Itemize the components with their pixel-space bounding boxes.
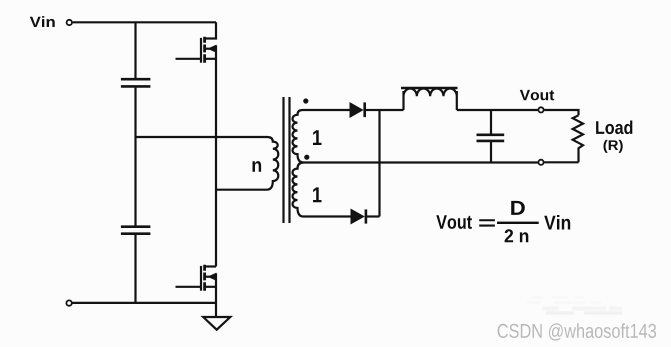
terminal Vout (open circle) — [538, 107, 543, 112]
node Vout label — [520, 90, 554, 100]
resistor Load R — [573, 115, 583, 162]
wire rectifier junction vertical — [378, 110, 380, 217]
capacitor C3 plates — [477, 135, 505, 141]
wire bottom rail — [73, 302, 217, 304]
transistor Q1 (upper MOSFET) — [176, 22, 217, 62]
capacitor C2 (lower bus capacitor) — [121, 227, 150, 234]
wire Vout terminal to load top — [544, 110, 578, 115]
wire bottom terminal to load bottom — [544, 161, 578, 163]
wire primary bottom lead — [216, 189, 267, 191]
wire middle rail (capacitor midpoint to primary top lead) — [136, 136, 268, 138]
label (R) — [604, 140, 623, 153]
wire bottom output rail (centre tap to bottom terminal) — [304, 161, 538, 163]
terminal bottom output (open circle) — [538, 160, 543, 165]
node Vin label — [30, 16, 55, 27]
polarity dot upper winding — [303, 98, 308, 103]
capacitor C1 (upper bus capacitor) — [121, 79, 150, 86]
watermark ghost marks — [527, 296, 623, 315]
label 1 (lower secondary turns) — [313, 187, 322, 202]
label n (primary turns) — [253, 161, 262, 172]
label Load — [596, 121, 632, 135]
wire inductor to Vout terminal — [457, 109, 538, 111]
wire Q2 source to ground — [215, 273, 217, 317]
wire left branch vertical middle segment — [134, 88, 136, 226]
wire left branch vertical lower segment — [134, 235, 136, 303]
diode D2 (lower rectifier) — [351, 209, 380, 223]
transformer T1 primary winding — [267, 137, 279, 190]
transformer T1 secondary upper winding — [293, 110, 350, 163]
transformer T1 core — [284, 97, 290, 223]
wire left branch vertical upper segment — [134, 22, 136, 78]
wire top output rail to inductor — [380, 109, 404, 111]
inductor L1 — [401, 88, 458, 110]
label 1 (upper secondary turns) — [313, 130, 322, 145]
watermark CSDN @whaosoft143 — [498, 323, 656, 340]
polarity dot lower winding — [304, 155, 309, 160]
capacitor C3 output filter upper lead — [490, 110, 492, 134]
transistor Q2 (lower MOSFET) — [176, 265, 217, 291]
wire switch midpoint vertical (Q1 source to Q2 drain) — [215, 45, 217, 266]
diode D1 (upper rectifier) — [350, 102, 380, 117]
terminal Vin (open circle) — [67, 20, 72, 25]
wire top rail Vin terminal to Q1 drain corner — [73, 21, 216, 23]
ground — [203, 317, 230, 330]
terminal bottom-left return (open circle) — [66, 300, 71, 305]
transformer T1 secondary lower winding — [293, 163, 351, 217]
formula Vout = D over 2n times Vin — [436, 201, 570, 242]
capacitor C3 lower lead — [490, 142, 492, 162]
